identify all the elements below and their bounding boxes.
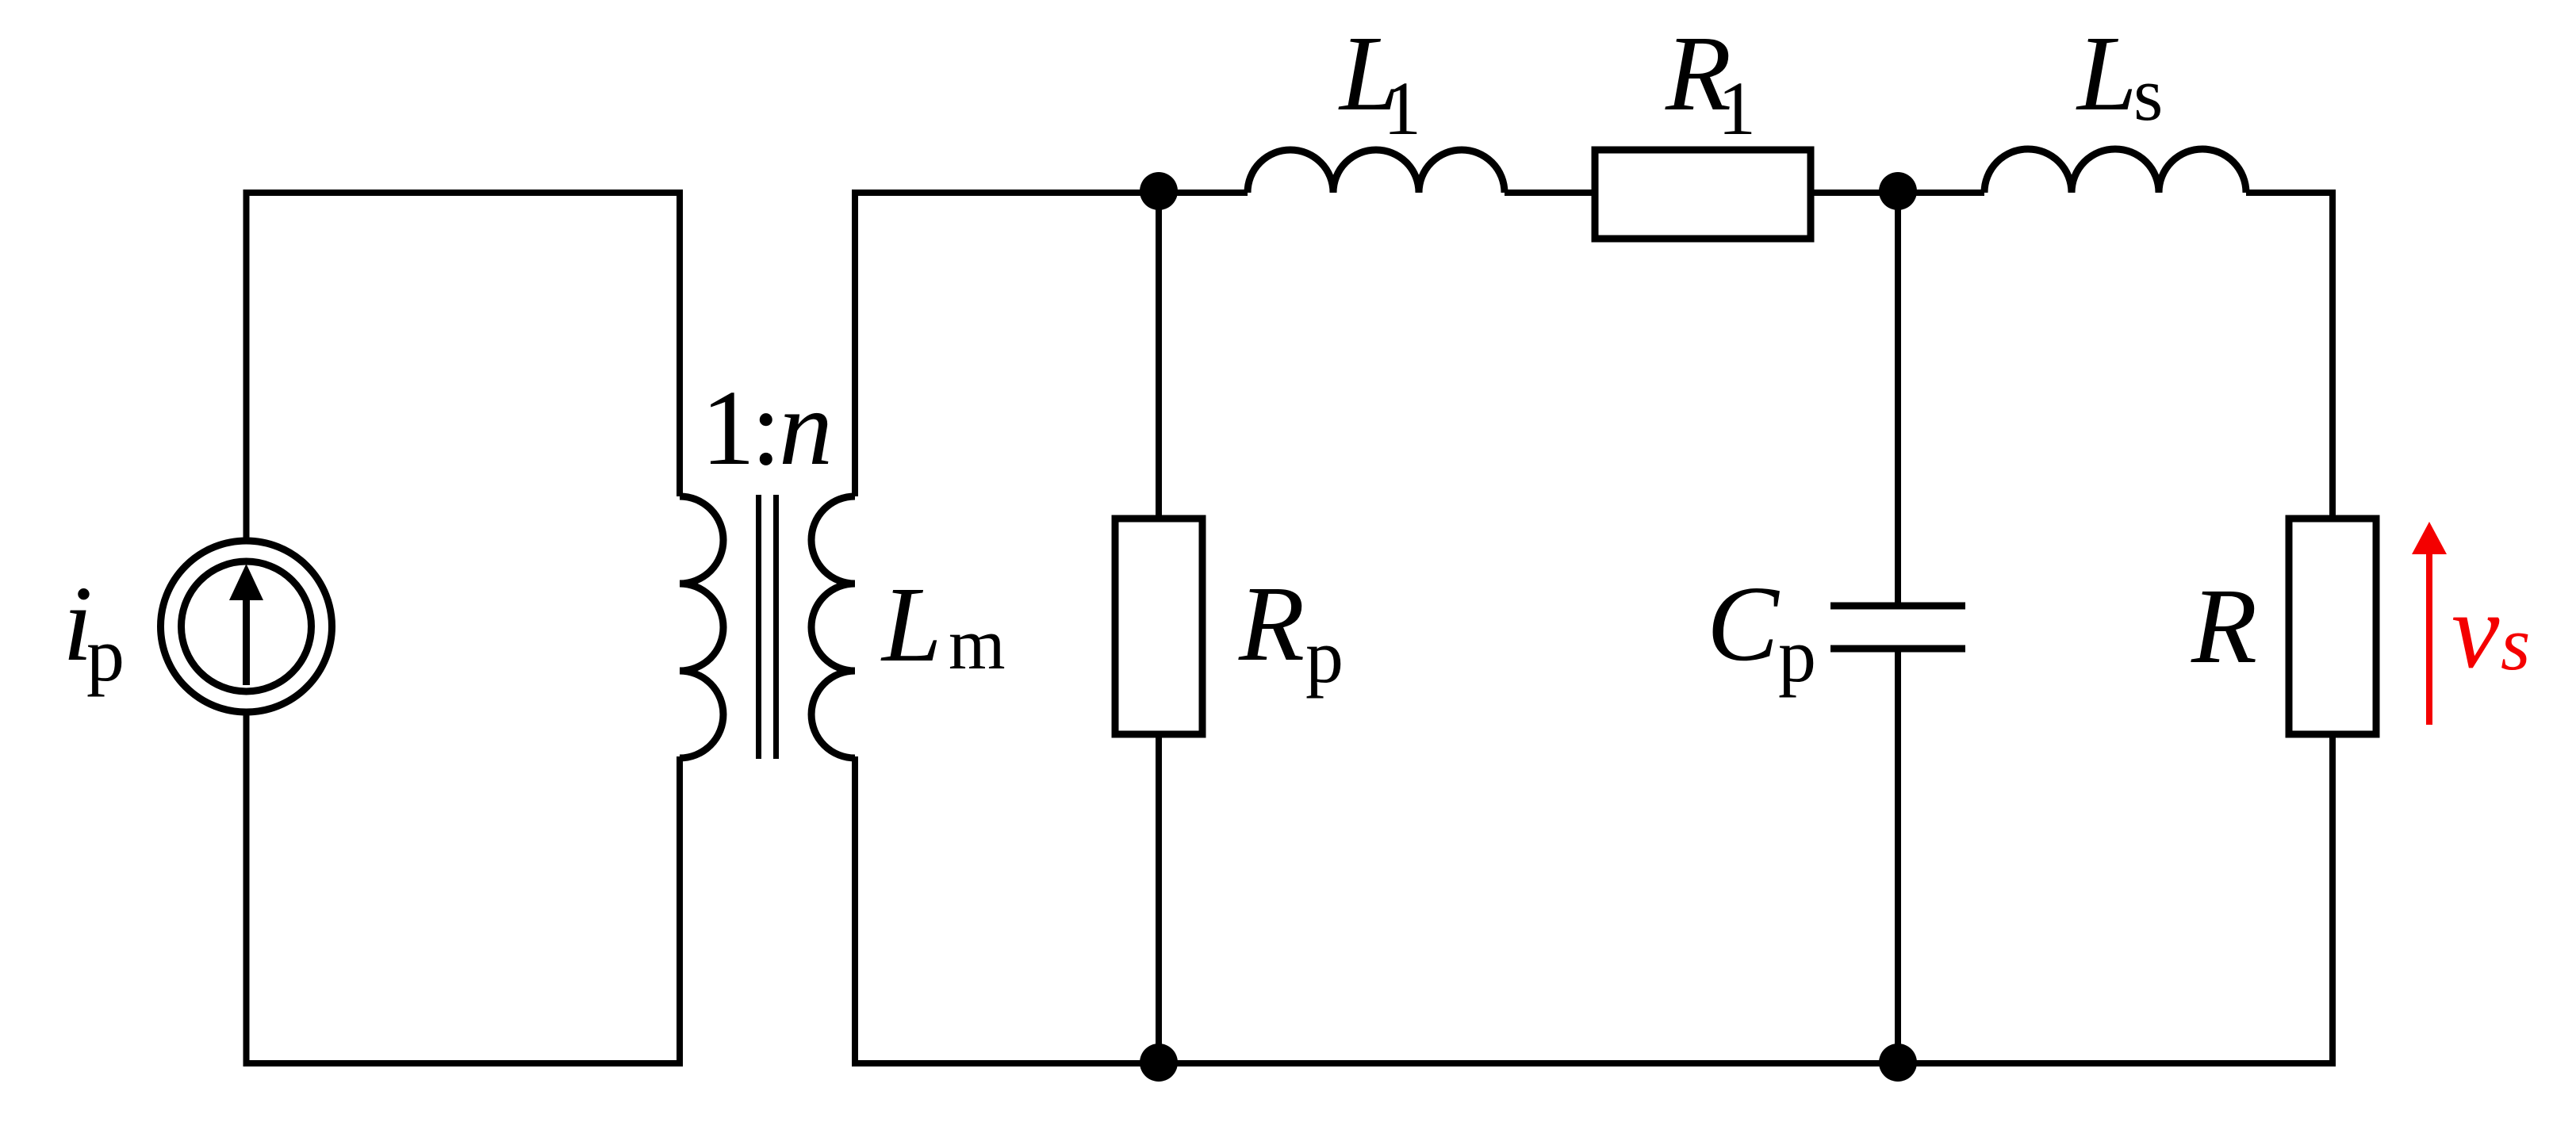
svg-text:L: L (880, 565, 942, 684)
svg-text:p: p (1778, 613, 1816, 698)
svg-text:C: C (1707, 565, 1780, 684)
wire node B to Cp top plate (1895, 193, 1901, 606)
current source arrow head (229, 564, 263, 600)
resistor Rl (1595, 150, 1811, 239)
node B bottom junction dot (1879, 1043, 1917, 1082)
svg-text:1: 1 (1718, 66, 1756, 151)
wire Rp to bottom (1156, 734, 1162, 1063)
vs arrow head (2412, 522, 2447, 554)
svg-text:n: n (779, 369, 833, 488)
wire node A to Rp (1156, 193, 1162, 519)
wire Ls to right corner (2246, 190, 2336, 196)
wire Rl to node B (1811, 190, 1984, 196)
node A junction dot (1140, 172, 1178, 210)
svg-text:s: s (2501, 601, 2530, 686)
current source ip inner circle (182, 561, 312, 691)
wire Cp bottom plate to bottom (1895, 649, 1901, 1063)
resistor Rp (1115, 519, 1202, 734)
wire right vertical lower (2329, 734, 2336, 1066)
wire secondary lead lower (852, 756, 858, 1066)
wire primary lead upper (677, 190, 683, 496)
wire secondary bottom horizontal (852, 1060, 2333, 1066)
svg-text:R: R (2191, 567, 2257, 686)
wire bottom-left horizontal (243, 1060, 684, 1066)
svg-text:p: p (1305, 614, 1344, 699)
resistor R (2289, 519, 2376, 734)
svg-text:1: 1 (701, 369, 755, 488)
inductor Ll (1248, 150, 1505, 193)
node B junction dot (1879, 172, 1917, 210)
capacitor Cp plate top (1830, 603, 1965, 610)
wire left vertical upper (243, 190, 250, 542)
svg-text:s: s (2133, 52, 2163, 136)
transformer secondary winding (811, 496, 855, 758)
wire top-left horizontal (247, 190, 680, 196)
node A bottom junction dot (1140, 1043, 1178, 1082)
wire left vertical lower (243, 711, 250, 1066)
svg-text:1: 1 (1383, 66, 1421, 151)
transformer core line 1 (756, 495, 761, 759)
wire primary lead lower (677, 756, 683, 1066)
wire secondary lead upper (852, 190, 858, 496)
vs arrow shaft (2426, 553, 2432, 725)
transformer primary winding (680, 496, 723, 758)
current source ip outer circle (161, 541, 332, 712)
svg-text:v: v (2451, 572, 2500, 691)
svg-text:R: R (1238, 565, 1305, 684)
capacitor Cp plate bottom (1830, 645, 1965, 653)
inductor Ls (1984, 149, 2246, 193)
svg-text:L: L (2076, 14, 2137, 133)
wire Ll to Rl (1505, 190, 1595, 196)
wire top node A segment (855, 190, 1248, 196)
svg-text::: : (751, 369, 781, 488)
svg-text:m: m (949, 603, 1006, 684)
current source arrow shaft (243, 597, 250, 685)
transformer core line 2 (773, 495, 779, 759)
wire right vertical upper (2329, 190, 2336, 519)
svg-text:p: p (86, 612, 125, 697)
